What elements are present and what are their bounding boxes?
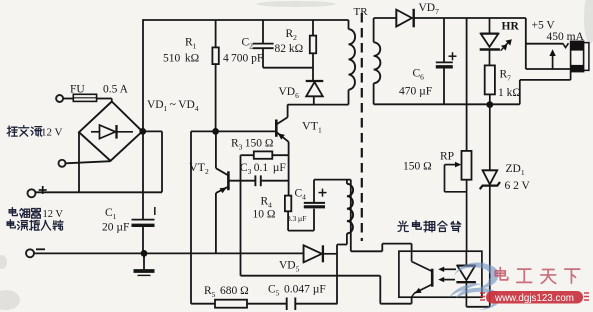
wire output +5V corner [525,18,527,69]
svg-text:12 V: 12 V [43,209,64,220]
opto light arrows [442,268,457,270]
wire C2 to R2 node [263,67,313,69]
capacitor C3 0.1uF [230,180,256,182]
terminal AC input 2 [59,160,66,167]
capacitor C5 0.047uF [286,298,288,311]
svg-text:20 µF: 20 µF [102,222,129,234]
svg-text:510 kΩ: 510 kΩ [163,53,199,65]
wire DC+ up to top rail [142,19,144,131]
svg-text:HR: HR [502,21,520,33]
wire fuse input [63,98,73,100]
svg-text:82 kΩ: 82 kΩ [275,43,304,55]
capacitor C1 20uF [132,219,155,221]
svg-text:6 2 V: 6 2 V [505,180,531,192]
resistor R2 82k [312,20,314,36]
wire VT1 emitter drop [288,155,290,195]
resistor R7 1k [485,65,495,94]
label lighter 12V line1 [9,208,17,216]
RP wiper [445,164,458,166]
wire C4 top row [314,179,351,181]
svg-text:R5 680 Ω: R5 680 Ω [204,285,249,299]
svg-text:+5 V: +5 V [532,20,556,32]
diode VD6 [306,80,324,82]
wire secondary bottom row [374,103,520,105]
svg-text:10 Ω: 10 Ω [253,209,276,221]
ground symbol [143,253,145,269]
LED HR light arrows [505,43,508,46]
wire opto top feed [350,180,352,252]
resistor R4 10 [285,196,291,212]
label plus sign [39,189,47,191]
transformer secondary winding [373,18,375,42]
svg-text:VD1 ~ VD4: VD1 ~ VD4 [147,99,199,113]
watermark blue swoosh [449,262,501,310]
wire bias row [191,130,276,132]
node ground C1 [141,250,148,257]
photocoupler box [399,251,482,297]
node bridge DC+ [139,128,146,135]
wire VT1 collector row [288,104,349,106]
wire plug return [570,72,572,80]
wire C1 to ground row [142,225,144,253]
wire top rail right [374,17,397,19]
LED HR [489,18,491,33]
output polarity arrow [552,52,554,70]
svg-text:12 V: 12 V [41,127,63,139]
wire +5V lead [526,43,563,45]
svg-text:0.5 A: 0.5 A [103,84,129,96]
svg-text:www.dgjs123.com: www.dgjs123.com [494,293,574,304]
wire plus row [36,191,163,193]
node base bias [212,128,219,135]
capacitor C6 470uF [443,18,445,62]
svg-text:R3 150 Ω: R3 150 Ω [231,138,273,152]
transistor VT1 [275,120,278,137]
node R7 bottom [486,101,493,108]
svg-text:FU: FU [70,84,85,96]
resistor R5 680 [191,303,215,305]
terminal minus [26,249,34,257]
bridge rectifier VD1-VD4 [79,102,142,161]
svg-text:150 Ω: 150 Ω [403,161,432,173]
label power input line2 [7,220,15,228]
svg-text:3.3 µF: 3.3 µF [287,214,306,223]
watermark url band [486,291,583,304]
watermark brand text [495,268,507,280]
label cig-lighter line1 [0,0,1,1]
wire fuse to bridge top [97,98,112,100]
wire R3 left drop [240,155,242,276]
terminal plus [28,189,36,197]
fuse FU [73,94,96,101]
label AC-12V input text [7,126,17,136]
transistor VT2 [227,171,230,190]
wire plus riser [161,131,163,192]
terminal AC input 1 [56,95,63,102]
label photocoupler text [398,221,408,231]
transformer primary winding [348,20,350,29]
wire bias left drop [190,131,192,303]
svg-text:RP: RP [440,151,454,163]
label photocoupler [0,0,1,1]
opto LED [465,252,467,265]
wire bridge left to plus-row [78,132,80,192]
wire AC2 to bridge bottom [66,161,111,163]
capacitor C2 4700pF [262,20,264,43]
svg-text:1 kΩ: 1 kΩ [498,87,521,99]
capacitor C4 3.3uF [313,209,315,231]
wire HV feed drop [466,18,468,151]
wire feedback bottom row [241,275,381,277]
transformer feedback winding [346,180,348,184]
transformer core dashed [361,13,363,241]
plug tip tick [563,43,569,47]
resistor R1 510k [215,20,217,47]
wire DC+ down to C1 [142,131,144,219]
plug connector [571,41,584,71]
svg-text:4 700 pF: 4 700 pF [223,53,263,65]
svg-text:470 µF: 470 µF [399,86,432,98]
wire output low lead [526,68,571,70]
label minus sign [36,248,45,250]
svg-text:C3 0.1 µF: C3 0.1 µF [240,162,286,176]
diode VD5 [303,245,305,262]
label AC mains [0,0,1,1]
wire top rail left [143,19,349,21]
wire opto LED drop [379,276,381,304]
wire ground row [34,252,304,254]
wire riser to bridge node [142,130,162,132]
resistor R3 150 [241,154,254,156]
potentiometer RP [462,151,472,180]
phototransistor [411,252,413,262]
wire LED cathode row [466,306,490,308]
zener ZD1 [489,105,491,171]
diode VD7 [395,10,397,27]
